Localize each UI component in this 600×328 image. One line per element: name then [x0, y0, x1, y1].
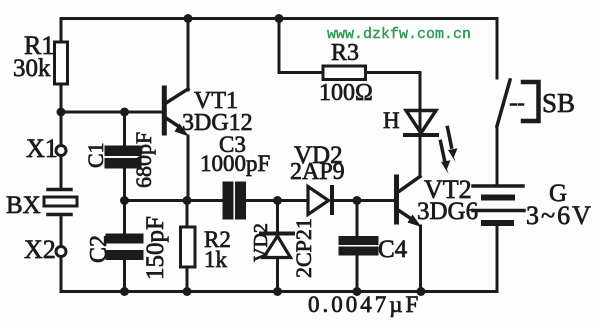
wire left rail upper: [60, 19, 63, 44]
node middle rail 2CP21: [273, 196, 282, 205]
svg-text:30k: 30k: [13, 55, 51, 82]
resistor R3: [323, 66, 366, 80]
node top rail / VT1 collector: [184, 14, 193, 23]
svg-text:C4: C4: [378, 236, 408, 263]
node bottom rail R2: [183, 287, 192, 296]
svg-text:2CP21: 2CP21: [291, 218, 316, 278]
node top rail / R3 branch: [275, 14, 284, 23]
wire VT2 emitter to bottom rail: [419, 226, 422, 292]
svg-text:1000pF: 1000pF: [200, 151, 270, 176]
capacitor C1: [106, 112, 140, 201]
svg-text:BX: BX: [6, 192, 41, 219]
resistor R1: [55, 42, 68, 84]
svg-text:SB: SB: [542, 88, 575, 118]
wire X1 to BX: [60, 156, 63, 187]
svg-text:100Ω: 100Ω: [319, 80, 373, 106]
wire R3 branch from top rail: [279, 19, 323, 73]
wire BX to X2: [60, 217, 63, 246]
wire bottom rail: [61, 290, 497, 293]
svg-text:3~6V: 3~6V: [526, 201, 593, 230]
svg-text:680pF: 680pF: [131, 132, 156, 188]
svg-text:0.0047µF: 0.0047µF: [308, 292, 421, 317]
svg-text:www.dzkfw.com.cn: www.dzkfw.com.cn: [327, 26, 471, 43]
svg-text:1k: 1k: [204, 247, 228, 272]
diode VD2 2CP21: [261, 201, 293, 292]
svg-text:150pF: 150pF: [142, 216, 169, 280]
node base rail C1: [120, 108, 129, 117]
LED H: [405, 111, 437, 136]
terminal X2: [56, 247, 66, 257]
node bottom rail VT2 emitter: [417, 287, 426, 296]
svg-text:R3: R3: [331, 40, 359, 66]
wire LED to VT2 collector: [419, 135, 422, 177]
crystal BX: [44, 190, 77, 215]
capacitor C4: [340, 201, 377, 292]
capacitor C2: [107, 201, 142, 292]
svg-text:2AP9: 2AP9: [290, 159, 345, 185]
svg-text:C2: C2: [86, 235, 112, 263]
wire R3 to LED: [366, 73, 421, 111]
svg-text:X2: X2: [24, 235, 56, 264]
wire X2 to bottom rail: [60, 257, 63, 292]
resistor R2: [181, 201, 196, 292]
terminal X1: [56, 146, 66, 156]
wire VT1 emitter down: [187, 136, 190, 201]
node base rail left: [57, 108, 66, 117]
svg-text:H: H: [383, 108, 400, 133]
node middle rail C4 VT2: [353, 196, 362, 205]
node middle rail VT1 emitter R2: [183, 196, 192, 205]
LED light arrow 2: [441, 142, 451, 175]
switch SB: [497, 80, 539, 126]
transistor VT1: [164, 88, 189, 137]
node bottom rail C2: [120, 287, 129, 296]
wire right rail upper: [496, 19, 499, 79]
node bottom rail 2CP21: [273, 287, 282, 296]
wire battery to bottom rail: [496, 226, 499, 292]
LED light arrow 1: [448, 128, 458, 163]
wire middle rail left: [125, 199, 225, 202]
wire base node to X1: [60, 112, 63, 146]
svg-text:C1: C1: [83, 142, 108, 168]
svg-text:3DG6: 3DG6: [417, 198, 478, 225]
node bottom rail C4: [353, 287, 362, 296]
node middle rail C1 C2: [120, 196, 129, 205]
wire C3 to node: [245, 199, 309, 202]
wire R1 to base node: [60, 84, 63, 112]
wire top rail: [61, 17, 497, 20]
battery G: [473, 186, 524, 223]
diode VD2 2AP9: [308, 187, 357, 215]
wire VT1 collector to top rail: [187, 19, 190, 91]
wire node to VT2 base: [357, 199, 394, 202]
wire base rail R1 to VT1: [61, 111, 162, 114]
svg-text:VD2: VD2: [250, 223, 272, 262]
wire switch to battery: [496, 126, 499, 185]
capacitor C3: [224, 183, 245, 218]
transistor VT2: [397, 177, 422, 228]
svg-text:X1: X1: [26, 134, 58, 163]
